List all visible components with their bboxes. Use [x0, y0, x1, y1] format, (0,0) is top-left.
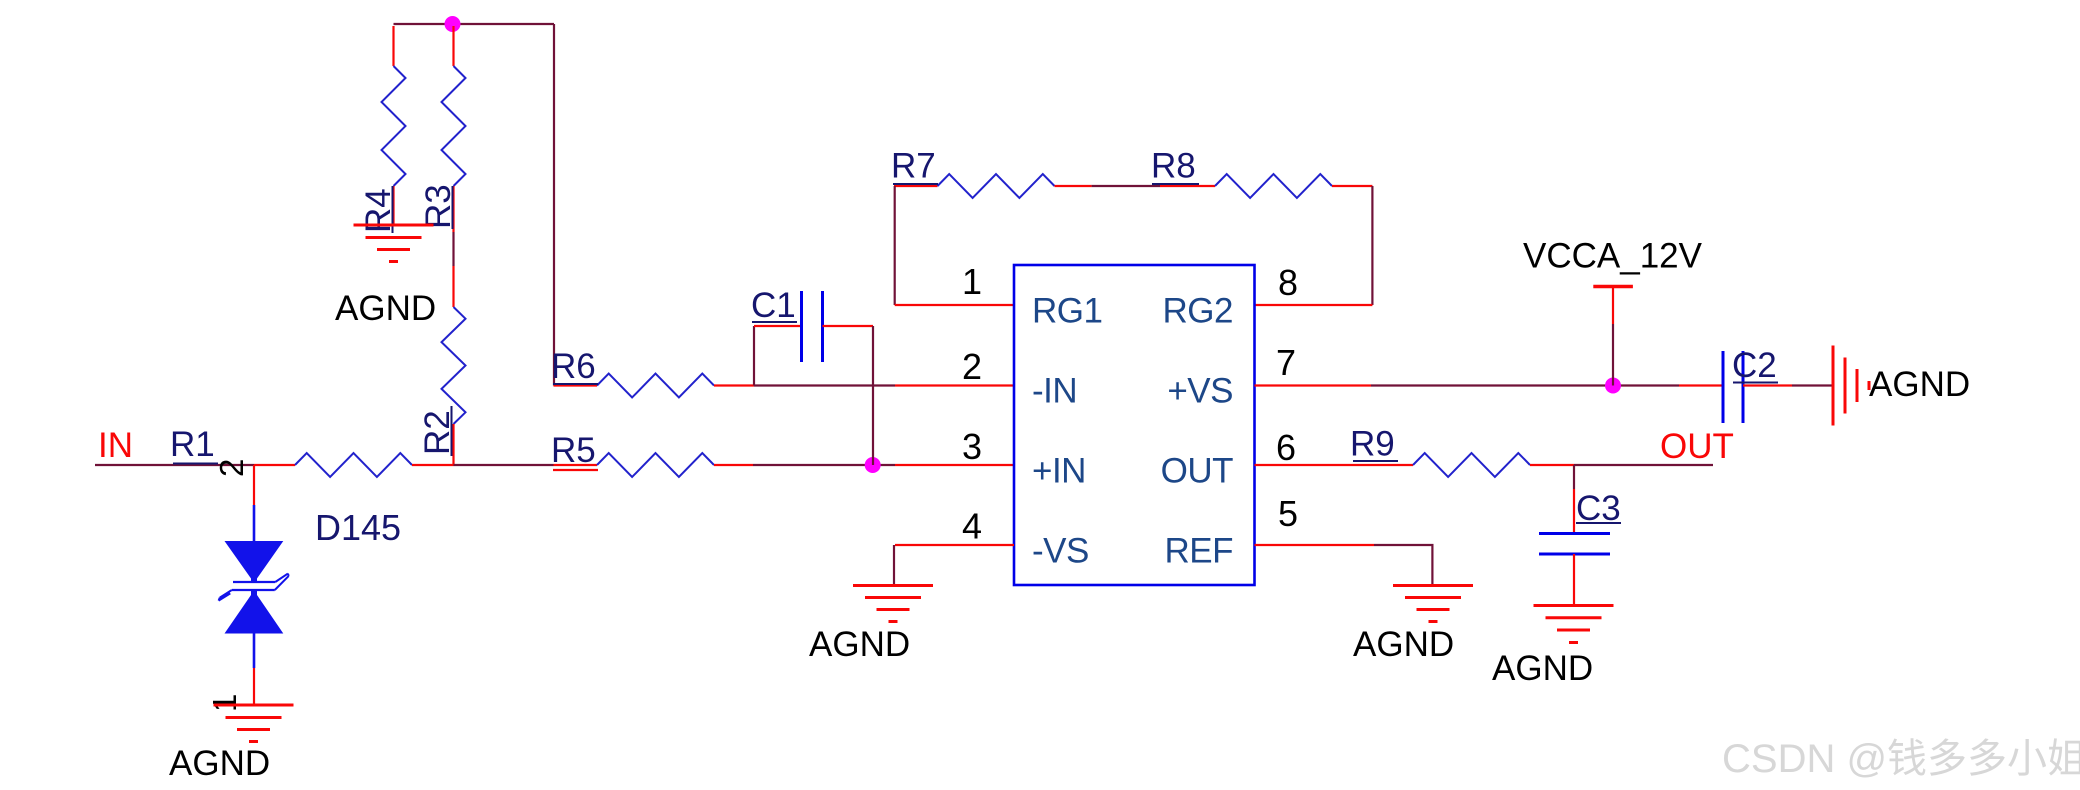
- junction top net: [445, 16, 461, 32]
- svg-text:-IN: -IN: [1032, 371, 1077, 410]
- svg-text:R5: R5: [551, 431, 596, 470]
- resistor R7: [891, 147, 1092, 199]
- capacitor C1: [751, 286, 873, 465]
- capacitor C2: [1679, 346, 1792, 423]
- svg-text:-VS: -VS: [1032, 531, 1089, 570]
- svg-text:AGND: AGND: [169, 744, 270, 783]
- svg-text:7: 7: [1276, 342, 1296, 383]
- wire +IN net: [753, 464, 895, 466]
- resistor R5: [551, 431, 753, 477]
- wire RG1 net vertical: [894, 186, 896, 305]
- svg-text:8: 8: [1278, 262, 1298, 303]
- svg-text:C1: C1: [751, 286, 796, 325]
- svg-text:AGND: AGND: [1353, 625, 1454, 664]
- svg-text:AGND: AGND: [1492, 649, 1593, 688]
- wire pin8 stub: [1255, 304, 1373, 306]
- svg-text:CSDN @钱多多小姐: CSDN @钱多多小姐: [1722, 737, 2080, 781]
- svg-text:1: 1: [206, 694, 243, 712]
- svg-text:R8: R8: [1151, 147, 1196, 186]
- diode D145 (bidirectional TVS): [206, 459, 401, 712]
- wire pin3 stub: [895, 464, 1014, 466]
- wire IN net: [95, 464, 254, 466]
- resistor R4: [359, 26, 406, 233]
- wire pin7 stub: [1255, 384, 1372, 386]
- svg-text:2: 2: [962, 346, 982, 387]
- wire vertical from top net down to R6: [553, 24, 555, 386]
- junction +IN net: [865, 457, 881, 473]
- svg-text:AGND: AGND: [809, 625, 910, 664]
- resistor R1: [170, 425, 454, 477]
- svg-text:OUT: OUT: [1660, 427, 1734, 466]
- svg-text:AGND: AGND: [335, 289, 436, 328]
- svg-text:R1: R1: [170, 425, 215, 464]
- ground AGND under C3: [1492, 606, 1614, 689]
- svg-text:C2: C2: [1732, 346, 1777, 385]
- wire -IN net: [754, 384, 895, 386]
- svg-text:IN: IN: [98, 426, 133, 465]
- svg-text:D145: D145: [315, 507, 401, 548]
- capacitor C3: [1539, 465, 1621, 606]
- svg-text:R7: R7: [891, 147, 936, 186]
- power VCCA_12V: [1523, 237, 1703, 386]
- wire RG2 net vertical: [1371, 186, 1373, 305]
- svg-text:RG1: RG1: [1032, 291, 1102, 330]
- svg-text:REF: REF: [1165, 531, 1234, 570]
- junction VCCA net: [1605, 378, 1621, 394]
- op-amp U1 (instrumentation amplifier): [1014, 265, 1255, 585]
- svg-text:+VS: +VS: [1167, 371, 1233, 410]
- resistor R8: [1151, 147, 1372, 199]
- ground AGND right (rotated): [1833, 346, 1970, 426]
- ground AGND at pin4: [809, 586, 933, 665]
- wire pin5 stub: [1255, 544, 1375, 546]
- resistor R3: [419, 26, 466, 232]
- svg-text:+IN: +IN: [1032, 451, 1086, 490]
- svg-text:R6: R6: [551, 347, 596, 386]
- svg-text:5: 5: [1278, 493, 1298, 534]
- svg-text:VCCA_12V: VCCA_12V: [1523, 237, 1703, 276]
- ground AGND under R4: [335, 225, 436, 328]
- svg-text:2: 2: [213, 459, 250, 477]
- wire pin6 stub: [1255, 464, 1414, 466]
- svg-text:3: 3: [962, 426, 982, 467]
- svg-text:1: 1: [962, 261, 982, 302]
- wire REF net to ground: [1374, 545, 1432, 586]
- wire pin1 stub: [895, 304, 1014, 306]
- resistor R9: [1350, 425, 1574, 478]
- wire pin4 to ground: [893, 545, 895, 586]
- wire R7 to R8: [1092, 185, 1160, 187]
- svg-text:OUT: OUT: [1161, 451, 1234, 490]
- svg-text:AGND: AGND: [1869, 365, 1970, 404]
- wire +IN net R1 to R5: [454, 464, 554, 466]
- wire C2 to ground: [1792, 384, 1833, 386]
- ground AGND at pin5: [1353, 586, 1473, 665]
- svg-text:R9: R9: [1350, 425, 1395, 464]
- svg-text:4: 4: [962, 506, 982, 547]
- wire top net R4/R3 horizontal: [394, 23, 555, 25]
- wire pin2 stub: [895, 384, 1014, 386]
- svg-text:6: 6: [1276, 427, 1296, 468]
- svg-text:RG2: RG2: [1163, 291, 1233, 330]
- wire OUT net: [1574, 464, 1713, 466]
- wire R3 to R2: [452, 232, 454, 266]
- wire +VS net: [1371, 384, 1679, 386]
- wire pin4 stub: [895, 544, 1014, 546]
- ground AGND under D145: [169, 705, 294, 783]
- resistor R2: [418, 266, 466, 465]
- resistor R6: [551, 347, 754, 398]
